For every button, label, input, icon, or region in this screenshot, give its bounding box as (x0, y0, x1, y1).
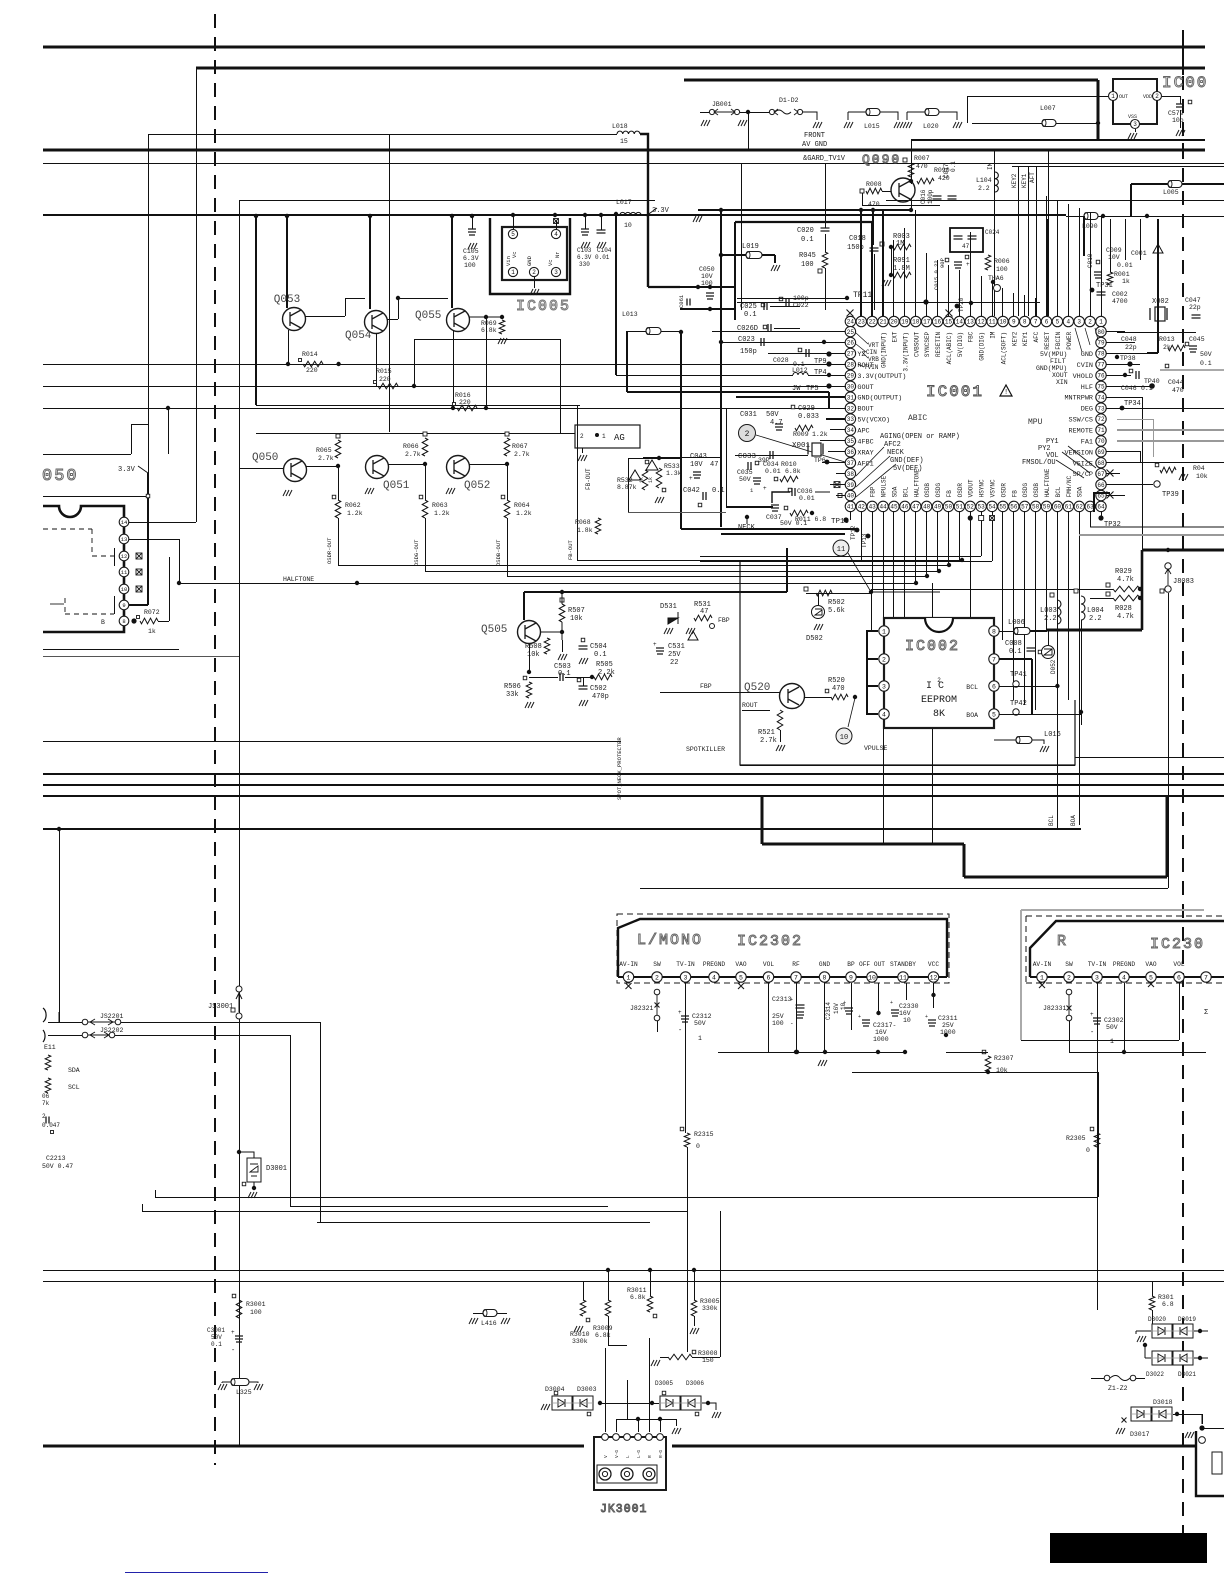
wire pin65 right (1106, 495, 1125, 497)
svg-text:48: 48 (923, 504, 931, 511)
wire pin71 gray (1117, 429, 1224, 431)
svg-text:C504: C504 (590, 643, 607, 651)
wire d3018 right (1173, 1414, 1202, 1416)
junction (708, 307, 712, 311)
svg-text:330k: 330k (702, 1305, 718, 1312)
svg-text:+: + (653, 641, 657, 648)
gray stub (50, 603, 64, 605)
squares cluster (945, 258, 949, 262)
wire js line y1206 (290, 1206, 608, 1208)
ground (1116, 1428, 1125, 1434)
wire D3001 link (239, 1152, 254, 1188)
ground (903, 122, 912, 128)
svg-text:VCC: VCC (928, 961, 939, 968)
wire OSD line y571 (425, 571, 939, 573)
wire bus y1281 (43, 1281, 1224, 1283)
capacitor C531 (656, 648, 664, 654)
wire top power bus (43, 46, 1205, 49)
wire pin42 down (861, 511, 863, 560)
wire R062 col (338, 466, 340, 500)
wire vertical from SDA bus (59, 829, 61, 1022)
svg-text:TP12: TP12 (850, 525, 857, 540)
svg-text:58: 58 (1032, 504, 1040, 511)
svg-text:C031: C031 (740, 411, 757, 419)
ground (651, 1360, 660, 1366)
svg-text:RESET: RESET (1044, 331, 1051, 349)
svg-text:50V 0.47: 50V 0.47 (42, 1163, 73, 1170)
wire bus y741 (43, 741, 621, 743)
wire pin54 down (992, 511, 994, 561)
wire pin36 left (828, 451, 845, 453)
pin 49 (932, 501, 942, 511)
svg-text:VDOUT: VDOUT (968, 479, 975, 497)
transistor Q505 (518, 621, 541, 644)
svg-text:Q055: Q055 (415, 310, 441, 322)
capacitor C3001 (235, 1336, 243, 1342)
svg-text:10: 10 (999, 319, 1007, 326)
capacitor C031 (775, 424, 783, 430)
svg-text:HALFTONE: HALFTONE (913, 468, 920, 497)
wire R3010 up (583, 1281, 585, 1300)
svg-text:-: - (790, 1020, 794, 1027)
resistor R028 (1113, 595, 1140, 601)
junction (845, 296, 849, 300)
svg-text:470: 470 (832, 685, 845, 693)
ground (498, 338, 507, 344)
wire pin76 right (1106, 375, 1131, 377)
svg-text:22p: 22p (1125, 344, 1137, 351)
resistor fragment R06 (45, 1078, 51, 1093)
svg-text:D3017: D3017 (1130, 1431, 1150, 1438)
svg-text:56: 56 (1010, 504, 1018, 511)
svg-text:D3018: D3018 (1153, 1399, 1173, 1406)
wire pin4 stub (866, 713, 878, 715)
wire L020 left (907, 112, 925, 120)
wire thick Q505 feed (523, 592, 525, 620)
junction (708, 285, 712, 289)
capacitor C104 (597, 230, 606, 233)
wire Q053 stub (286, 216, 288, 308)
svg-text:D3001: D3001 (266, 1165, 287, 1173)
svg-text:72: 72 (1097, 416, 1105, 423)
pin 40 (845, 490, 855, 500)
svg-text:C020: C020 (797, 227, 814, 235)
wire L012 right (808, 375, 846, 377)
wire L015 right (880, 112, 898, 120)
wire thick x829 (828, 392, 830, 408)
svg-text:R062: R062 (345, 502, 361, 509)
svg-text:61: 61 (1065, 504, 1073, 511)
pin 1 (879, 626, 889, 636)
resistor R072 (140, 618, 158, 624)
svg-text:VOL: VOL (1173, 961, 1184, 968)
circled 10 (836, 728, 852, 744)
svg-text:46: 46 (901, 504, 909, 511)
wire pin2 down 2303 (1069, 1021, 1071, 1052)
wire R06x top rail (256, 433, 575, 435)
svg-text:47: 47 (912, 504, 920, 511)
connector JK3001 box (594, 1437, 666, 1490)
wire circled2 diag (756, 435, 845, 462)
resistor R3010 (580, 1300, 586, 1316)
svg-text:REMOTE: REMOTE (1069, 427, 1093, 435)
svg-text:20: 20 (890, 319, 898, 326)
pin 8 (1020, 316, 1030, 326)
wire pin5 line (999, 714, 1081, 716)
svg-text:1k: 1k (148, 628, 156, 635)
ground (597, 242, 606, 248)
wire pin21 up (882, 210, 884, 317)
junction (889, 245, 893, 249)
wire 050 bottom line2 (43, 656, 239, 658)
junction (909, 208, 913, 212)
svg-text:APC: APC (857, 427, 869, 435)
crystal X001 (812, 443, 821, 456)
wire C025 line (770, 306, 800, 308)
wire pin80 right (1106, 331, 1125, 333)
svg-text:L013: L013 (622, 311, 638, 318)
wire pin6 down (768, 983, 770, 1052)
wire Q054 stub (369, 216, 371, 309)
svg-text:79: 79 (1097, 340, 1105, 347)
svg-text:FMH/NC: FMH/NC (1066, 475, 1073, 497)
wire IC006 rail riser (911, 140, 913, 178)
capacitor C036 (792, 488, 795, 496)
wire C502 drop (583, 677, 585, 686)
wire JS2201 left (48, 1022, 82, 1024)
capacitor C023 (761, 338, 764, 346)
capacitor C037 elec (771, 505, 779, 511)
pin 62 (1074, 501, 1084, 511)
svg-text:150p: 150p (740, 348, 757, 356)
resistor R091 (893, 272, 911, 278)
svg-text:L019: L019 (742, 243, 759, 251)
wire neck bend (746, 517, 748, 524)
pin 2 (529, 267, 538, 276)
junction (396, 296, 400, 300)
wire JS2202 right (115, 1035, 290, 1037)
svg-text:TP41: TP41 (1010, 671, 1027, 679)
svg-text:100: 100 (801, 261, 814, 269)
svg-text:JK3001: JK3001 (600, 1503, 647, 1516)
tick marks near pins (114, 548, 116, 566)
svg-text:OSDB: OSDB (1033, 483, 1040, 498)
svg-text:GND(DIG): GND(DIG) (979, 332, 986, 361)
svg-text:2: 2 (1088, 319, 1092, 326)
svg-text:9: 9 (122, 602, 125, 609)
svg-text:10k: 10k (1196, 473, 1208, 480)
svg-text:Q051: Q051 (383, 480, 410, 492)
wire Q053-Q054 base link (305, 316, 345, 318)
svg-text:1k: 1k (1122, 278, 1130, 285)
junction (285, 214, 289, 218)
svg-text:IM: IM (987, 162, 994, 170)
wire pin54 turn (700, 561, 992, 563)
svg-text:Vc: Vc (547, 259, 554, 266)
svg-text:71: 71 (1097, 427, 1105, 434)
svg-text:AV-IN: AV-IN (619, 961, 638, 968)
svg-text:E11: E11 (44, 1044, 56, 1051)
svg-text:7k: 7k (42, 1100, 50, 1107)
wire pin67 right (1106, 473, 1120, 475)
svg-text:25V: 25V (772, 1013, 784, 1020)
xmark pin1 2303 (1039, 982, 1045, 988)
svg-text:VHOLD: VHOLD (1073, 373, 1093, 381)
svg-text:FBP: FBP (700, 683, 712, 690)
svg-text:39: 39 (847, 482, 855, 489)
svg-text:JS3001: JS3001 (208, 1003, 233, 1011)
pin 6 IC2302 (763, 972, 773, 982)
svg-text:R069: R069 (481, 320, 497, 327)
resistor R006 (985, 255, 991, 270)
svg-text:FBP: FBP (870, 486, 877, 497)
svg-text:AV GND: AV GND (802, 141, 827, 149)
wire 100p line (737, 302, 1040, 304)
svg-text:26: 26 (847, 340, 855, 347)
ground (1137, 1336, 1146, 1342)
svg-text:80: 80 (1097, 329, 1105, 336)
pin 6 IC2303 (1174, 972, 1184, 982)
pin 79 (1096, 337, 1106, 347)
wire R3005 link (694, 1270, 696, 1300)
svg-text:L016: L016 (1044, 731, 1061, 739)
wire GOUT line y386 (43, 386, 845, 388)
wire d-pair link (601, 1403, 659, 1405)
svg-text:L416: L416 (481, 1320, 497, 1327)
pin 4 IC2302 (709, 972, 719, 982)
warning triangle (646, 460, 658, 470)
svg-text:49: 49 (934, 504, 942, 511)
pin 9 (1009, 316, 1019, 326)
wire pin53 turn (700, 556, 981, 558)
svg-text:PREGND: PREGND (1113, 961, 1136, 968)
dashes inside 050 (43, 529, 114, 556)
pin 2 IC2302 (652, 972, 662, 982)
square R045 (818, 269, 822, 273)
svg-text:100: 100 (464, 262, 476, 269)
wire R507 link (541, 592, 562, 640)
pin 12 (119, 551, 129, 561)
xmark pin1 (626, 983, 632, 989)
junction (719, 253, 723, 257)
svg-text:JS2201: JS2201 (100, 1013, 124, 1020)
pin 36 (845, 447, 855, 457)
svg-text:13: 13 (967, 319, 975, 326)
wire pin12 thick (933, 983, 935, 1008)
square R008 (860, 189, 864, 193)
wire pin15 up (948, 265, 950, 317)
svg-text:!: ! (1004, 389, 1008, 397)
capacitor C008 (1027, 648, 1036, 651)
wire pin2 up (1090, 212, 1092, 317)
svg-text:KEY2: KEY2 (1011, 173, 1018, 188)
wire thick x762 (761, 796, 764, 844)
svg-text:R006: R006 (994, 258, 1010, 265)
wire pin60 down (1057, 511, 1059, 829)
label R007 470 (903, 158, 907, 162)
svg-text:54: 54 (988, 504, 996, 511)
capacitor C103 (581, 229, 589, 235)
ground (468, 243, 477, 249)
pin 14 (119, 517, 129, 527)
svg-text:330: 330 (579, 261, 590, 268)
svg-text:0: 0 (696, 1143, 700, 1150)
inductor L006 (1014, 628, 1030, 635)
svg-text:75: 75 (1097, 383, 1105, 390)
svg-text:SDA: SDA (891, 486, 898, 497)
inductor L016 (1016, 737, 1032, 744)
junction (859, 208, 863, 212)
wire Q05x collector stub (255, 216, 257, 405)
wire pin5 up (513, 216, 515, 229)
wire thin y166 (1012, 166, 1224, 168)
connector stubs left edge (43, 1008, 46, 1042)
pin 80 (1096, 326, 1106, 336)
svg-text:R508: R508 (525, 643, 542, 651)
svg-text:3.3V: 3.3V (652, 207, 670, 215)
junction (166, 406, 170, 410)
wire pin30 left (844, 386, 847, 388)
pin 41 (845, 501, 855, 511)
svg-text:RESETIN: RESETIN (935, 331, 942, 357)
wire pin61 down (1068, 511, 1070, 700)
svg-text:VPULSE: VPULSE (864, 745, 888, 752)
svg-text:-: - (231, 1347, 235, 1355)
wire pin3 down 2303 (1097, 983, 1099, 1310)
pin 7 IC2302 (791, 972, 801, 982)
capacitor C018 (870, 248, 879, 251)
wire pin27 line (768, 353, 846, 355)
svg-text:4: 4 (882, 711, 886, 718)
wire C043 line (643, 457, 721, 459)
pin 56 (1009, 501, 1019, 511)
svg-text:C036: C036 (797, 488, 813, 495)
capacitor small1 (954, 236, 963, 239)
svg-text:18: 18 (912, 319, 920, 326)
capacitor C2311 (928, 1020, 936, 1026)
junction (746, 110, 750, 114)
svg-text:VAO: VAO (1145, 961, 1156, 968)
pin 47 (911, 501, 921, 511)
svg-text:C2317-: C2317- (873, 1022, 896, 1029)
inductor L005 (1168, 181, 1182, 188)
svg-text:R015: R015 (376, 368, 392, 375)
pin 44 (878, 501, 888, 511)
svg-text:C103: C103 (577, 247, 592, 254)
pin 24 (845, 316, 855, 326)
svg-text:2.7k: 2.7k (405, 451, 421, 458)
wire pin53 down (981, 511, 983, 556)
svg-text:100p: 100p (927, 189, 934, 204)
svg-text:2: 2 (1067, 974, 1071, 981)
wire pin4 up (556, 221, 558, 229)
wire thick y309 (680, 308, 734, 310)
wire y496 line (43, 496, 148, 498)
wire R045 down (825, 268, 827, 310)
ic IC002 box (884, 618, 994, 728)
resistor R045 (822, 252, 828, 268)
pin 32 (845, 403, 855, 413)
junction (606, 1268, 610, 1272)
svg-text:25: 25 (847, 329, 855, 336)
ic IC001 body (850, 322, 1101, 507)
svg-text:13: 13 (121, 536, 128, 543)
wire AFT drop (1036, 166, 1038, 316)
pin 8 IC2302 (819, 972, 829, 982)
wire pin1 up (1101, 216, 1103, 317)
wire pin43 down (872, 511, 874, 592)
svg-text:C002: C002 (1112, 291, 1128, 298)
svg-text:51: 51 (956, 504, 964, 511)
ground (655, 497, 664, 503)
ground (1176, 130, 1185, 136)
ic IC2303 gray lines (1021, 909, 1204, 911)
svg-text:3.3V(OUTPUT): 3.3V(OUTPUT) (857, 373, 906, 381)
svg-text:47: 47 (962, 243, 970, 250)
svg-text:C502: C502 (590, 685, 607, 693)
svg-text:C531: C531 (668, 643, 685, 651)
pin 3 (551, 267, 560, 276)
svg-text:J82331: J82331 (1043, 1005, 1067, 1012)
svg-text:4FBC: 4FBC (857, 438, 873, 446)
wire pin9 up (1013, 293, 1015, 317)
svg-text:470: 470 (868, 201, 880, 208)
resistor R003 (893, 244, 911, 250)
wire pin3 stub (866, 685, 878, 687)
pin 6 JK3001 (657, 1434, 664, 1441)
wire pin46 down (904, 511, 906, 650)
svg-text:4: 4 (712, 974, 716, 981)
svg-text:R2307: R2307 (994, 1055, 1014, 1062)
resistor R069 (499, 320, 505, 334)
junction (1175, 1412, 1179, 1416)
svg-text:R011 6.8: R011 6.8 (795, 516, 826, 523)
wire C104 stub (601, 216, 603, 230)
svg-text:C104: C104 (597, 247, 612, 254)
resistor R015 (378, 383, 398, 389)
xmark pin24 (847, 310, 854, 317)
svg-text:THA6: THA6 (988, 275, 1004, 282)
svg-text:1: 1 (698, 1035, 702, 1042)
svg-text:XIN: XIN (1056, 379, 1068, 386)
svg-text:5V(MPU): 5V(MPU) (1040, 351, 1067, 358)
svg-text:12: 12 (978, 319, 986, 326)
svg-text:C2313: C2313 (772, 996, 792, 1003)
wire pin55 down (1002, 511, 1004, 640)
ground (365, 488, 374, 494)
svg-text:68: 68 (1097, 460, 1105, 467)
wire riser for second bus (196, 68, 198, 522)
svg-text:R: R (647, 1455, 653, 1458)
svg-text:1.2k: 1.2k (434, 510, 450, 517)
diode pair D3020/D3019 (1152, 1324, 1172, 1338)
wire thick y529 (681, 528, 857, 530)
ic IC002 notch (925, 618, 953, 632)
svg-text:22: 22 (869, 319, 877, 326)
svg-text:150: 150 (702, 1357, 714, 1364)
wire x414 up (414, 339, 416, 386)
svg-text:MPU: MPU (1028, 418, 1043, 427)
svg-text:66: 66 (1097, 482, 1105, 489)
svg-text:34: 34 (847, 427, 855, 434)
svg-text:25V: 25V (668, 651, 681, 659)
ground (218, 1384, 227, 1390)
pin 2 JK3001 (613, 1434, 620, 1441)
svg-text:C2311: C2311 (938, 1015, 958, 1022)
resistor R520 (831, 694, 848, 700)
svg-text:C2312: C2312 (692, 1013, 712, 1020)
wire pin22 up (871, 222, 873, 317)
